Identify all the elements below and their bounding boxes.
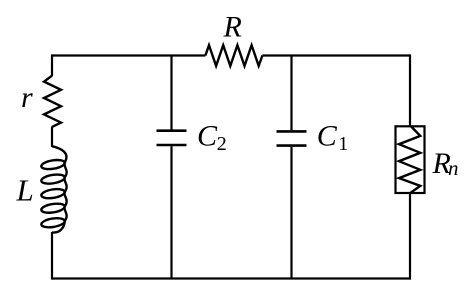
svg-text:1: 1 [338,133,348,155]
inductor L loop 2 [41,173,66,185]
inductor L loop 3 [41,188,66,200]
wire C2 branch upper [170,56,172,130]
capacitor C1 bottom plate [277,144,307,147]
wire right rail lower [409,193,411,280]
wire C2 branch lower [170,146,172,278]
svg-text:C: C [317,120,338,153]
capacitor C2 bottom plate [157,144,187,147]
svg-text:r: r [21,81,33,114]
resistor Rn zigzag [399,126,420,193]
wire between L and bottom rail [51,232,53,280]
svg-text:R: R [223,11,242,44]
inductor L loop 1 [41,159,66,171]
wire top rail right segment [262,54,410,56]
svg-text:L: L [16,173,34,208]
wire bottom rail [52,277,410,279]
wire top rail left segment [52,54,205,56]
wire left rail upper [51,54,53,76]
inductor L top hook [52,146,66,163]
wire C1 branch lower [290,147,292,279]
wire between r and L [51,127,53,147]
resistor Rn box [396,126,425,193]
resistor R [205,45,262,66]
inductor L right strand [64,163,66,221]
svg-text:C: C [197,119,218,152]
svg-text:2: 2 [217,133,227,155]
wire C1 branch upper [290,56,292,131]
svg-text:n: n [448,156,459,180]
inductor L loop 4 [41,202,66,214]
capacitor C2 top plate [157,129,187,132]
inductor L loop 5 [41,217,66,229]
wire right rail upper [409,54,411,125]
resistor r [44,76,61,127]
inductor L bottom hook [52,221,65,233]
capacitor C1 top plate [277,130,307,133]
